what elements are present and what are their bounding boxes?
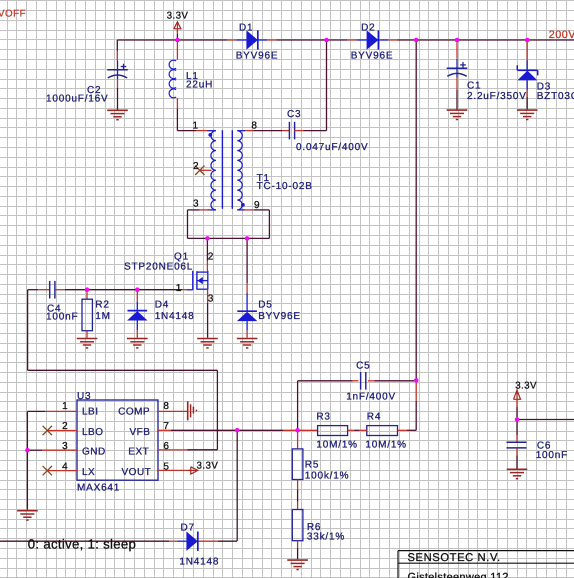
svg-text:2.2uF/350V: 2.2uF/350V bbox=[467, 91, 527, 102]
svg-text:MAX641: MAX641 bbox=[77, 483, 120, 494]
svg-text:1000uF/16V: 1000uF/16V bbox=[46, 93, 109, 104]
svg-text:BYV96E: BYV96E bbox=[236, 50, 279, 61]
svg-text:GND: GND bbox=[82, 447, 106, 458]
svg-text:R4: R4 bbox=[367, 412, 381, 423]
svg-text:R3: R3 bbox=[316, 412, 330, 423]
svg-text:3: 3 bbox=[62, 441, 68, 452]
svg-text:200V: 200V bbox=[549, 29, 574, 41]
svg-text:COMP: COMP bbox=[118, 406, 150, 417]
svg-text:1M: 1M bbox=[95, 311, 111, 322]
svg-text:Gistelsteenweg 112: Gistelsteenweg 112 bbox=[408, 571, 509, 578]
svg-text:LBI: LBI bbox=[82, 406, 99, 417]
svg-text:100nF: 100nF bbox=[536, 450, 568, 461]
svg-text:1nF/400V: 1nF/400V bbox=[346, 392, 396, 403]
svg-text:1: 1 bbox=[176, 283, 182, 294]
svg-text:D7: D7 bbox=[181, 523, 195, 534]
svg-text:LBO: LBO bbox=[82, 427, 104, 438]
svg-text:3.3V: 3.3V bbox=[167, 10, 189, 21]
svg-text:D1: D1 bbox=[239, 23, 253, 34]
svg-text:VOUT: VOUT bbox=[122, 467, 152, 478]
svg-text:1N4148: 1N4148 bbox=[179, 556, 219, 567]
svg-text:2: 2 bbox=[193, 161, 199, 172]
svg-text:STP20NE06L: STP20NE06L bbox=[124, 262, 193, 273]
svg-text:10M/1%: 10M/1% bbox=[365, 440, 407, 451]
svg-text:6: 6 bbox=[163, 441, 169, 452]
svg-text:BZT03C200: BZT03C200 bbox=[537, 91, 574, 102]
svg-text:1: 1 bbox=[193, 121, 199, 132]
svg-text:4: 4 bbox=[62, 461, 68, 472]
svg-text:5: 5 bbox=[163, 461, 169, 472]
svg-text:3.3V: 3.3V bbox=[515, 380, 537, 391]
svg-text:3: 3 bbox=[193, 199, 199, 210]
svg-text:D2: D2 bbox=[361, 23, 375, 34]
svg-text:VOFF: VOFF bbox=[0, 9, 26, 20]
svg-text:0.047uF/400V: 0.047uF/400V bbox=[296, 142, 368, 153]
svg-text:0: active, 1: sleep: 0: active, 1: sleep bbox=[28, 537, 136, 552]
svg-text:EXT: EXT bbox=[128, 447, 149, 458]
svg-text:2: 2 bbox=[62, 421, 68, 432]
svg-text:8: 8 bbox=[163, 401, 169, 412]
svg-text:1N4148: 1N4148 bbox=[155, 311, 195, 322]
svg-text:3.3V: 3.3V bbox=[197, 460, 219, 471]
svg-text:8: 8 bbox=[251, 121, 257, 132]
svg-text:33k/1%: 33k/1% bbox=[307, 531, 345, 542]
svg-text:22uH: 22uH bbox=[186, 80, 213, 91]
svg-text:C1: C1 bbox=[467, 80, 481, 91]
svg-text:C3: C3 bbox=[287, 109, 301, 120]
svg-text:7: 7 bbox=[163, 421, 169, 432]
svg-text:BYV96E: BYV96E bbox=[351, 50, 394, 61]
svg-text:1: 1 bbox=[62, 401, 68, 412]
svg-text:100nF: 100nF bbox=[46, 312, 78, 323]
svg-text:D4: D4 bbox=[155, 300, 169, 311]
svg-text:TC-10-02B: TC-10-02B bbox=[257, 181, 313, 192]
svg-text:SENSOTEC N.V.: SENSOTEC N.V. bbox=[408, 552, 501, 564]
svg-text:9: 9 bbox=[254, 200, 260, 211]
svg-text:100k/1%: 100k/1% bbox=[305, 471, 350, 482]
svg-text:BYV96E: BYV96E bbox=[258, 311, 301, 322]
svg-text:2: 2 bbox=[208, 252, 214, 263]
svg-text:D5: D5 bbox=[258, 300, 272, 311]
svg-text:U3: U3 bbox=[77, 391, 91, 402]
svg-text:3: 3 bbox=[208, 294, 214, 305]
svg-text:LX: LX bbox=[82, 467, 95, 478]
svg-text:R5: R5 bbox=[305, 460, 319, 471]
svg-text:VFB: VFB bbox=[130, 427, 151, 438]
svg-text:C5: C5 bbox=[356, 360, 370, 371]
svg-text:10M/1%: 10M/1% bbox=[316, 440, 358, 451]
svg-text:R2: R2 bbox=[95, 300, 109, 311]
